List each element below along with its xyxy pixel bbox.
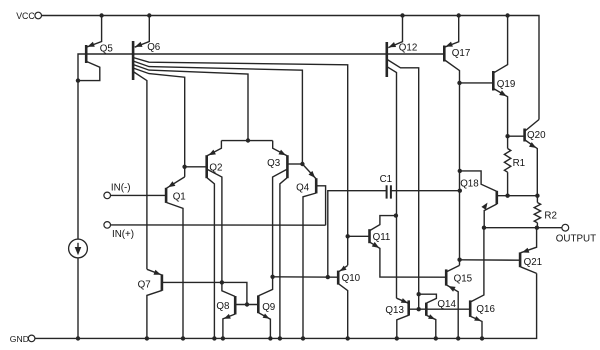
wire Q19 base xyxy=(460,82,494,84)
IN(+) terminal xyxy=(104,222,134,240)
svg-text:Q20: Q20 xyxy=(527,130,546,141)
wire current source bottom xyxy=(77,258,79,339)
OUTPUT terminal xyxy=(556,224,596,244)
node C1-Q10.B junction xyxy=(326,275,330,279)
wire Q3 base xyxy=(288,163,303,165)
svg-text:VCC: VCC xyxy=(16,11,35,21)
svg-text:Q21: Q21 xyxy=(524,257,543,268)
node Q20.E-R2 junction xyxy=(535,194,539,198)
wire Q11 base xyxy=(348,235,369,237)
node R1-base junction xyxy=(505,194,509,198)
node Q6.Cc-emitter rail junction xyxy=(246,138,250,142)
transistor Q14 xyxy=(426,299,456,338)
wire Q13-Q14-Q16 base rail xyxy=(409,308,470,310)
node Q11.C-Q12.C2 junction xyxy=(394,213,398,217)
wire Q10 base xyxy=(273,276,338,278)
wire Q2-Q3 emitter rail xyxy=(221,140,272,142)
node Q5 diode junction xyxy=(76,78,80,82)
node Q19.E-R1-Q20.B xyxy=(505,134,509,138)
wire Q8 collector xyxy=(222,282,235,296)
svg-text:Q15: Q15 xyxy=(454,273,473,284)
svg-text:Q18: Q18 xyxy=(460,179,479,190)
wire Q20 base xyxy=(508,135,524,137)
wire Q7 base xyxy=(162,282,247,304)
svg-text:Q12: Q12 xyxy=(399,42,418,53)
node Q17.C-Q19.B xyxy=(457,81,461,85)
svg-text:Q19: Q19 xyxy=(497,79,516,90)
node R2-output junction xyxy=(535,226,539,230)
wire Q12 collector-1 xyxy=(387,60,419,310)
GND terminal xyxy=(10,334,35,344)
svg-text:Q3: Q3 xyxy=(267,158,281,169)
junction VCC-Q17 xyxy=(457,13,461,17)
svg-text:Q16: Q16 xyxy=(476,304,495,315)
junction GND-Q3.C2 xyxy=(278,336,282,340)
transistor Q15 xyxy=(446,265,472,338)
svg-text:Q10: Q10 xyxy=(342,273,361,284)
junction GND-Q2.C2 xyxy=(212,336,216,340)
wire Q4 base xyxy=(317,186,326,225)
svg-text:GND: GND xyxy=(10,334,29,344)
transistor Q20 xyxy=(525,120,546,196)
wire Q6 collector-b xyxy=(133,61,302,164)
wire C1 right xyxy=(391,190,460,192)
node C1-right junction xyxy=(458,189,462,193)
junction GND-Q15.E xyxy=(456,336,460,340)
junction VCC-Q19 xyxy=(505,13,509,17)
transistor Q16 xyxy=(470,228,495,339)
transistor Q12 xyxy=(387,16,418,78)
IN(-) terminal xyxy=(104,182,131,198)
svg-text:Q7: Q7 xyxy=(138,279,151,290)
svg-text:Q1: Q1 xyxy=(173,191,186,202)
node Q9.C-Q10.B junction xyxy=(270,275,274,279)
svg-text:Q5: Q5 xyxy=(100,43,114,54)
wire output rail xyxy=(484,227,562,229)
junction GND-Q16.E xyxy=(480,336,484,340)
svg-text:Q8: Q8 xyxy=(216,301,230,312)
svg-text:Q14: Q14 xyxy=(437,299,456,310)
node Q18.E-Q16.C junction xyxy=(482,226,486,230)
node Q15.C-Q21.B junction xyxy=(457,258,461,262)
svg-text:Q11: Q11 xyxy=(373,232,391,243)
wire IN+ to Q4 base xyxy=(111,224,326,226)
VCC rail xyxy=(42,16,540,120)
transistor Q17 xyxy=(444,16,470,62)
wire Q6 collector-d xyxy=(133,68,185,177)
transistor Q13 xyxy=(385,298,408,338)
node Q8-Q9 base junction xyxy=(245,302,249,306)
junction GND-Q8.E xyxy=(221,336,225,340)
resistor R1 xyxy=(504,136,525,196)
wire Q6 collector-c xyxy=(133,65,248,141)
transistor Q9 xyxy=(258,277,275,339)
junction GND-Q1.C xyxy=(181,336,185,340)
svg-text:R1: R1 xyxy=(513,158,526,169)
capacitor C1 xyxy=(380,174,393,199)
svg-text:Q17: Q17 xyxy=(452,48,471,59)
node Q17.C-Q18.C junction xyxy=(458,169,462,173)
transistor Q2 xyxy=(207,141,223,339)
junction GND-Q14.E xyxy=(434,336,438,340)
VCC terminal xyxy=(16,11,41,21)
junction VCC-Q12 xyxy=(400,13,404,17)
transistor Q6 xyxy=(133,16,161,81)
svg-text:Q2: Q2 xyxy=(209,162,222,173)
transistor Q7 xyxy=(138,269,162,338)
transistor Q18 xyxy=(460,179,497,228)
node Q6.Cb-Q3.B-Q4.E junction xyxy=(300,162,304,166)
wire Q6 collector-e xyxy=(133,72,147,270)
node Q12.C1-base rail junction xyxy=(417,307,421,311)
wire IN- to Q1 base xyxy=(111,194,166,196)
transistor Q5 xyxy=(86,16,113,64)
transistor Q8 xyxy=(216,296,258,338)
svg-text:OUTPUT: OUTPUT xyxy=(556,233,596,244)
wire Q14 collector xyxy=(419,294,437,303)
transistor Q21 xyxy=(520,228,542,274)
junction GND-Q4.C xyxy=(301,336,305,340)
svg-text:Q6: Q6 xyxy=(147,42,161,53)
wire C1 left xyxy=(328,191,387,277)
svg-text:Q13: Q13 xyxy=(385,305,404,316)
junction current source-GND xyxy=(76,336,80,340)
transistor Q19 xyxy=(493,16,515,137)
wire Q17 collector xyxy=(445,60,460,265)
wire Q18 collector xyxy=(460,171,497,191)
wire current source top xyxy=(77,81,79,240)
wire bias base rail xyxy=(86,53,444,55)
junction VCC-Q6 xyxy=(147,13,151,17)
node Q2.C-Q7.B junction xyxy=(220,280,224,284)
transistor Q3 xyxy=(267,141,287,339)
wire Q5 collector xyxy=(78,62,100,81)
junction GND-Q7.C xyxy=(145,336,149,340)
wire Q2 base xyxy=(185,166,207,168)
resistor R2 xyxy=(534,196,557,228)
svg-text:R2: R2 xyxy=(544,210,557,221)
current source I1 xyxy=(69,239,88,258)
junction GND-Q9.E xyxy=(268,336,272,340)
node Q6.Cd-Q2.B junction xyxy=(182,165,186,169)
wire Q6 collector-a xyxy=(133,58,348,266)
junction GND-Q13.C xyxy=(395,336,399,340)
GND rail xyxy=(35,273,537,338)
svg-text:Q4: Q4 xyxy=(296,182,310,193)
wire Q5 base-collector tie xyxy=(78,54,86,81)
transistor Q11 xyxy=(370,216,446,278)
wire Q18 base net xyxy=(497,195,537,197)
transistor Q4 xyxy=(296,164,316,338)
transistor Q10 xyxy=(338,265,360,338)
svg-text:IN(+): IN(+) xyxy=(112,229,134,240)
svg-text:IN(-): IN(-) xyxy=(111,182,131,193)
transistor Q1 xyxy=(166,177,186,339)
wire Q12 collector-2 xyxy=(387,67,396,298)
svg-text:Q9: Q9 xyxy=(262,302,275,313)
wire Q21 base xyxy=(460,259,520,261)
node Q12.C1-Q14.C junction xyxy=(417,292,421,296)
junction VCC-Q5 xyxy=(99,13,103,17)
node Q6.Ca-Q11.B junction xyxy=(346,234,350,238)
svg-text:C1: C1 xyxy=(380,174,393,185)
junction GND-Q10.C xyxy=(346,336,350,340)
